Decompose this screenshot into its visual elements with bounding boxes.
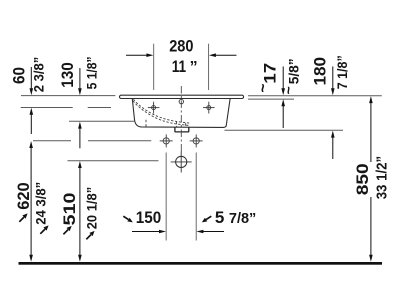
hidden drain edge right (dashed) [185, 123, 187, 127]
faucet crosshair left: circle [148, 102, 160, 114]
extension line 280 right [208, 44, 210, 90]
reference line: rim top left [21, 95, 115, 97]
svg-text:280: 280 [169, 37, 193, 56]
dim arrow 180 up [331, 131, 335, 159]
leader arrow under 24 3/8 [40, 225, 48, 233]
drain circle [171, 151, 192, 172]
svg-text:150: 150 [136, 208, 162, 227]
hidden bowl curve upper (dashed) [133, 99, 191, 123]
dim line 850 upper segment [369, 96, 373, 162]
extension line 280 left [153, 44, 155, 90]
reference line: 17mm level right [248, 98, 294, 100]
reference line: 620mm level seg2 [88, 140, 151, 142]
dim arrow 60 down [30, 67, 34, 95]
dim arrow 60 up [30, 108, 34, 134]
floor line [19, 262, 383, 265]
reference line: 60mm level seg2 [88, 107, 111, 109]
svg-text:”: ” [190, 59, 198, 76]
svg-text:20 1/8”: 20 1/8” [83, 187, 99, 229]
drain flange below basin [175, 127, 189, 131]
hidden bowl curve lower (dashed) [133, 101, 189, 126]
svg-text:510: 510 [60, 193, 79, 226]
svg-text:60: 60 [9, 67, 28, 84]
faucet crosshair right [203, 102, 215, 114]
reference line: 620mm level seg1 [33, 140, 71, 142]
extension line 150 left [165, 153, 167, 241]
leader arrow before 5 7/8 [202, 216, 212, 222]
leader arrow under 510 [63, 226, 71, 234]
svg-text:33 1/2”: 33 1/2” [374, 156, 391, 200]
center line (dash-dot) [180, 86, 182, 152]
svg-text:24 3/8”: 24 3/8” [33, 182, 49, 225]
dim arrow 150 [132, 230, 166, 234]
leader arrow under 20 1/8 [86, 231, 94, 239]
reference line: 510mm level [68, 160, 159, 162]
reference line: 60mm level seg1 [21, 107, 73, 109]
dim arrow 5 7/8 [196, 230, 224, 234]
reference line: 130mm level [69, 120, 134, 122]
reference line: 180mm level right [225, 129, 344, 131]
basin rim plate [120, 95, 244, 98]
svg-text:7 1/8”: 7 1/8” [334, 55, 350, 89]
svg-text:~: ~ [255, 84, 272, 93]
hidden vertical edge at x=146 (dashed) [145, 120, 147, 127]
svg-text:~: ~ [280, 86, 296, 94]
svg-text:180: 180 [311, 57, 330, 86]
svg-text:620: 620 [14, 182, 33, 210]
svg-text:850: 850 [353, 163, 372, 195]
svg-text:17: 17 [260, 63, 279, 84]
dim arrow 280 right [209, 53, 237, 57]
leader arrow before 150 [123, 216, 133, 222]
dim line 510 with arrows [78, 161, 82, 262]
svg-text:5/8”: 5/8” [285, 58, 301, 84]
svg-text:5 1/8”: 5 1/8” [83, 56, 99, 89]
dim arrow 130 up [78, 122, 82, 149]
dim line 850 lower segment [369, 197, 373, 262]
dim line 620 with arrows [29, 141, 33, 262]
svg-text:11: 11 [172, 57, 186, 76]
svg-text:2 3/8”: 2 3/8” [31, 57, 47, 93]
reference line: rim top right [248, 95, 382, 97]
svg-text:5 7/8”: 5 7/8” [215, 208, 256, 227]
basin body outline [132, 99, 230, 128]
fixing hole right [190, 134, 203, 147]
overflow circle under rim [179, 99, 183, 103]
svg-text:130: 130 [58, 62, 77, 88]
leader arrow under 620 [19, 213, 27, 221]
dim arrow 130 down [78, 68, 82, 95]
dim arrow 17 up [281, 99, 285, 128]
hidden drain edge left (dashed) [176, 122, 178, 128]
fixing hole left [160, 134, 173, 147]
extension line 150 right [195, 153, 197, 241]
dim arrow 280 left [126, 53, 153, 57]
dim arrow 17 down [281, 67, 285, 96]
dim arrow 180 down [331, 67, 335, 96]
